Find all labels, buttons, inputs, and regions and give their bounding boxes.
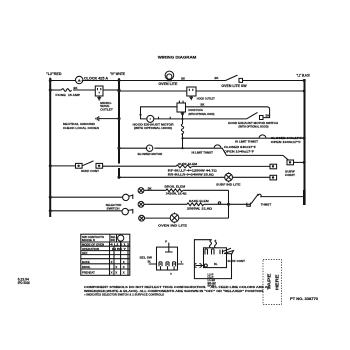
svg-text:OPEN 1040±17°F: OPEN 1040±17°F bbox=[224, 150, 254, 154]
svg-text:OVEN IND LITE: OVEN IND LITE bbox=[158, 223, 187, 227]
wire label BK bbox=[181, 77, 185, 81]
resistor bake elem bbox=[187, 199, 213, 211]
resistor broil elem bbox=[165, 185, 188, 196]
wire N to hood outlet bbox=[119, 90, 187, 92]
contact selector movable 2 bbox=[122, 208, 133, 214]
note footer bbox=[84, 285, 270, 296]
svg-text:SURF ELEM: SURF ELEM bbox=[178, 162, 197, 166]
wire hood plug drop with coil bbox=[181, 112, 183, 148]
wire fuse to outlet bbox=[73, 89, 95, 91]
wire outlet to N bbox=[103, 89, 119, 91]
wire label BK bbox=[201, 102, 205, 106]
svg-text:CONT: CONT bbox=[285, 173, 295, 177]
svg-text:SURF CONT: SURF CONT bbox=[81, 169, 99, 173]
wire N to oven lite switch bbox=[119, 80, 226, 82]
wire bake elem to thmst bbox=[204, 203, 250, 205]
wire hood plug left loop bbox=[141, 107, 178, 119]
svg-text:MODE OF OVEN: MODE OF OVEN bbox=[82, 243, 104, 247]
svg-text:COMPONENT SYMBOLS DO NOT REFLE: COMPONENT SYMBOLS DO NOT REFLECT TRUE CO… bbox=[84, 285, 270, 289]
svg-text:HOOD PLUG: HOOD PLUG bbox=[188, 108, 203, 112]
lamp oven lite bbox=[158, 71, 177, 86]
wire N to ground electrode bbox=[99, 118, 119, 120]
switch surf cont right pole bbox=[283, 155, 305, 177]
svg-text:BAKE: BAKE bbox=[82, 260, 90, 264]
svg-text:PT NO. 338770: PT NO. 338770 bbox=[290, 297, 318, 301]
wire L2 selector feed 2 bbox=[50, 210, 122, 212]
svg-text:OFF: OFF bbox=[82, 251, 88, 255]
svg-text:X: X bbox=[115, 270, 117, 274]
wire bus vertical bbox=[228, 190, 230, 218]
contact selector broil bbox=[138, 188, 144, 194]
wire surf cont to surf elem bbox=[103, 165, 176, 167]
hood plug bbox=[177, 101, 215, 116]
svg-text:WIRED(RED,WHITE & BLACK). ALL: WIRED(RED,WHITE & BLACK). ALL COMPONENTS… bbox=[84, 289, 264, 293]
microwave outlet bbox=[95, 86, 113, 111]
node N label bbox=[110, 72, 126, 76]
svg-text:Y: Y bbox=[170, 272, 172, 276]
svg-text:X: X bbox=[123, 270, 125, 274]
terminal thmst bbox=[247, 203, 251, 207]
wire label BK bbox=[266, 113, 270, 117]
svg-text:IPD 5016: IPD 5016 bbox=[18, 281, 30, 285]
svg-text:X: X bbox=[111, 260, 113, 264]
lamp oven ind lite bbox=[158, 213, 187, 228]
motor blower bbox=[138, 145, 163, 156]
svg-text:SW CONTACTS: SW CONTACTS bbox=[82, 235, 104, 239]
svg-text:HOOD EXHAUST MOTOR: HOOD EXHAUST MOTOR bbox=[133, 122, 174, 126]
terminal bake small bbox=[218, 202, 220, 204]
svg-text:"L2"RED: "L2"RED bbox=[46, 72, 62, 76]
label part number bbox=[290, 297, 318, 301]
svg-text:BK: BK bbox=[74, 86, 78, 90]
surf cont detail bbox=[194, 240, 245, 288]
wire thmst to L1 bbox=[262, 196, 305, 198]
svg-text:HI LIMIT THMST: HI LIMIT THMST bbox=[192, 151, 214, 155]
svg-text:X: X bbox=[115, 265, 117, 269]
svg-text:(WITH OPTIONAL HOOD): (WITH OPTIONAL HOOD) bbox=[188, 112, 214, 116]
svg-text:15 AMP: 15 AMP bbox=[68, 93, 80, 97]
svg-text:WIRING DIAGRAM: WIRING DIAGRAM bbox=[158, 55, 197, 59]
switch oven thmst bbox=[251, 194, 271, 207]
wire broil contact to elem bbox=[144, 189, 166, 191]
wire broil elem to bus bbox=[183, 189, 229, 191]
wire label BK bbox=[74, 86, 78, 90]
svg-text:RR-8U,LR-0=2400W 25.6Ω: RR-8U,LR-0=2400W 25.6Ω bbox=[168, 173, 215, 177]
table sw contacts bbox=[81, 234, 130, 275]
terminal surf elem A bbox=[270, 164, 277, 169]
svg-text:X: X bbox=[123, 260, 125, 264]
svg-text:(WITH OPTIONAL HOOD): (WITH OPTIONAL HOOD) bbox=[134, 126, 172, 130]
ground neutral electrode bbox=[96, 116, 99, 121]
svg-text:IN BK Y: IN BK Y bbox=[112, 247, 126, 251]
clock 425A bbox=[76, 76, 109, 83]
wire surf ind lite to terminal bbox=[233, 176, 271, 178]
rail L1 (right vertical bus) bbox=[303, 79, 305, 205]
ground hood plug bbox=[181, 113, 185, 115]
wire hi-limit 2 to L1 bbox=[221, 148, 283, 155]
wire L2 to fuse bbox=[50, 89, 61, 91]
svg-text:SURF CONT: SURF CONT bbox=[228, 259, 246, 263]
wire lamp to bus bbox=[179, 217, 229, 219]
svg-text:3410W, 16.4Ω: 3410W, 16.4Ω bbox=[166, 192, 187, 196]
wire top rail L2 to clock bbox=[50, 80, 75, 82]
svg-text:4 L1 2 1 3: 4 L1 2 1 3 bbox=[110, 243, 130, 247]
svg-text:(WITH OPTIONAL HOOD): (WITH OPTIONAL HOOD) bbox=[239, 125, 269, 129]
wire L2 selector feed 1 bbox=[50, 196, 122, 198]
svg-text:BLOWER MOTOR: BLOWER MOTOR bbox=[138, 152, 163, 156]
svg-text:BK: BK bbox=[215, 76, 219, 80]
svg-text:○ INDICATES SELECTOR SWITCH &: ○ INDICATES SELECTOR SWITCH & □ SURFACE … bbox=[84, 292, 164, 296]
wire blower to hi-limit 2 bbox=[154, 147, 214, 149]
svg-text:P: P bbox=[165, 240, 167, 244]
svg-text:2585W, 21.6Ω: 2585W, 21.6Ω bbox=[187, 207, 213, 211]
rail L2 (left vertical bus) bbox=[49, 78, 51, 217]
label selector switch bbox=[106, 203, 122, 210]
svg-text:BAKE ELEM: BAKE ELEM bbox=[189, 199, 209, 203]
tape here box bbox=[263, 260, 282, 305]
svg-text:HERE: HERE bbox=[274, 274, 279, 290]
wire lamp contact to lamp bbox=[145, 217, 171, 219]
node L2 label bbox=[46, 72, 62, 76]
lamp surf ind lite bbox=[216, 172, 240, 186]
label surf elem ratings bbox=[168, 168, 218, 176]
title WIRING DIAGRAM bbox=[158, 55, 197, 59]
svg-text:OPERATION: OPERATION bbox=[82, 247, 99, 251]
svg-text:PREHEAT: PREHEAT bbox=[82, 270, 95, 274]
wire surf elem to terminal bbox=[192, 165, 270, 167]
svg-text:BROIL: BROIL bbox=[82, 265, 91, 269]
svg-text:HOOD EXHAUST MOTOR SWITCH: HOOD EXHAUST MOTOR SWITCH bbox=[228, 121, 278, 125]
svg-text:SURF IND LITE: SURF IND LITE bbox=[216, 182, 240, 186]
selector switch detail bbox=[140, 240, 184, 276]
svg-text:OUTLET: OUTLET bbox=[100, 107, 113, 111]
svg-text:X: X bbox=[123, 265, 125, 269]
svg-text:"N" WHITE: "N" WHITE bbox=[110, 72, 126, 76]
note neutral ground bbox=[63, 122, 99, 130]
wire bake contact to elem bbox=[144, 203, 187, 205]
svg-text:HOOD OUTLET: HOOD OUTLET bbox=[197, 97, 215, 101]
svg-text:BL: BL bbox=[214, 262, 218, 266]
resistor surf elem bbox=[176, 162, 197, 168]
svg-text:OPEN 1040±17°F: OPEN 1040±17°F bbox=[271, 140, 301, 144]
hood outlet bbox=[187, 87, 215, 101]
wire switch to L1 bbox=[243, 80, 305, 82]
wire N to blower motor bbox=[119, 147, 147, 149]
motor hood exhaust bbox=[133, 114, 174, 130]
svg-text:X: X bbox=[111, 270, 113, 274]
wire N to surf ind lite bbox=[119, 176, 225, 178]
svg-text:BK: BK bbox=[181, 77, 185, 81]
contact selector bake bbox=[138, 201, 144, 207]
contact selector movable 1 bbox=[123, 194, 133, 200]
switch oven lite sw bbox=[221, 75, 246, 88]
thermostat hi limit 1 bbox=[235, 135, 266, 144]
svg-text:SWITCH: SWITCH bbox=[107, 207, 120, 211]
rail N (middle vertical bus) bbox=[118, 78, 120, 178]
svg-text:OVEN LITE SW: OVEN LITE SW bbox=[221, 84, 246, 88]
svg-text:CHECK LOCAL CODES: CHECK LOCAL CODES bbox=[63, 126, 99, 130]
svg-text:FUSE: FUSE bbox=[55, 93, 66, 97]
svg-text:BROIL ELEM: BROIL ELEM bbox=[165, 185, 186, 189]
ground microwave outlet bbox=[97, 96, 101, 100]
svg-text:BK: BK bbox=[266, 113, 270, 117]
ground hood outlet bbox=[189, 96, 193, 100]
terminal surf ind B bbox=[270, 175, 277, 180]
label date codes bbox=[18, 278, 30, 286]
svg-text:"L1" BLACK: "L1" BLACK bbox=[296, 74, 310, 78]
wire hood outlet to L1 bbox=[196, 90, 305, 92]
node L1 label bbox=[296, 74, 310, 78]
wire label BK 2 bbox=[215, 76, 219, 80]
svg-text:SW: SW bbox=[111, 239, 116, 242]
svg-text:THMST: THMST bbox=[261, 203, 272, 207]
label closed/open 2 bbox=[224, 145, 256, 153]
contact selector lamp bbox=[139, 215, 145, 221]
thermostat hi limit 2 bbox=[192, 145, 222, 155]
label closed/open 1 bbox=[271, 136, 303, 144]
svg-text:BK: BK bbox=[201, 102, 205, 106]
svg-text:HI LIMIT THMST: HI LIMIT THMST bbox=[235, 140, 258, 144]
switch hood exhaust motor switch bbox=[228, 112, 278, 128]
fuse clamp bbox=[55, 89, 80, 97]
switch surf cont left pole bbox=[76, 161, 103, 173]
svg-text:CLOCK 425 A: CLOCK 425 A bbox=[84, 76, 109, 80]
svg-text:SEL SW: SEL SW bbox=[140, 255, 153, 259]
wire label BK bbox=[148, 186, 152, 190]
wire switch up to hood plug right bbox=[186, 107, 270, 118]
svg-text:Y: Y bbox=[181, 260, 183, 264]
svg-text:MADE X: MADE X bbox=[82, 238, 95, 242]
svg-text:BK: BK bbox=[148, 186, 152, 190]
wire clock to N bbox=[82, 80, 119, 82]
wire L2 to surf cont bbox=[50, 165, 75, 167]
wire hi-limit row 1 bbox=[183, 137, 260, 139]
svg-text:OVEN LITE: OVEN LITE bbox=[158, 82, 177, 86]
wire hi-limit 1 to L1 bbox=[266, 137, 305, 139]
wire motor to switch bbox=[154, 118, 247, 120]
svg-text:BL: BL bbox=[148, 259, 152, 263]
